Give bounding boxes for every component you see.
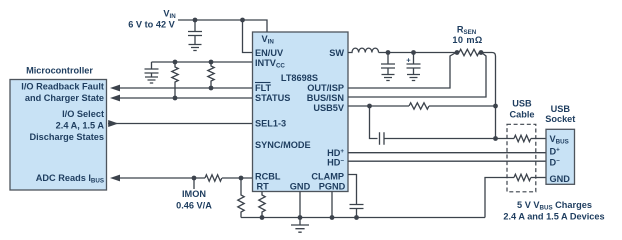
microcontroller block [10, 80, 107, 191]
junction RCBL resistor [239, 176, 244, 181]
svg-text:and Charger State: and Charger State [25, 93, 104, 103]
capacitor COUT1 [387, 53, 389, 65]
svg-text:EN/UV: EN/UV [255, 48, 284, 58]
resistor FLT pull-up [208, 62, 214, 88]
resistor cable VBUS [514, 135, 531, 141]
resistor USB5V series [409, 103, 429, 109]
capacitor HD series (horizontal) [380, 132, 385, 144]
wire SEL1-3 [108, 123, 252, 125]
svg-text:RCBL: RCBL [255, 172, 281, 182]
svg-text:Cable: Cable [509, 110, 534, 120]
wire EN/UV [243, 20, 253, 53]
ground [189, 45, 202, 51]
IMON tap stub [193, 178, 195, 189]
junction IMON node [192, 176, 197, 181]
svg-text:SW: SW [329, 48, 344, 58]
svg-text:2.4 A, 1.5 A: 2.4 A, 1.5 A [56, 121, 105, 131]
junction USB5V cap tap [367, 104, 372, 109]
svg-text:GND: GND [290, 181, 311, 191]
wire VBUS feed from RSEN [481, 53, 496, 139]
junction COUT1 [386, 50, 391, 55]
svg-text:LT8698S: LT8698S [281, 73, 318, 83]
svg-text:Discharge States: Discharge States [29, 132, 104, 142]
wire SW rail [379, 52, 459, 54]
wire CLAMP [348, 175, 357, 205]
svg-text:VIN: VIN [163, 9, 176, 21]
svg-text:10 mΩ: 10 mΩ [452, 35, 482, 45]
svg-text:USB: USB [512, 99, 532, 109]
wire INTVCC rail [152, 61, 253, 63]
wire BUS/ISN kelvin sense [348, 53, 486, 98]
junction GND rail [298, 215, 303, 220]
svg-text:RT: RT [257, 181, 270, 191]
wire ADC/IMON line [116, 177, 252, 179]
svg-text:GND: GND [550, 174, 571, 184]
wire cable GND to socket [531, 177, 546, 179]
svg-text:USB: USB [551, 104, 571, 114]
svg-text:6 V to 42 V: 6 V to 42 V [128, 20, 175, 30]
wire GND pin drop [299, 192, 301, 218]
svg-text:Socket: Socket [545, 114, 575, 124]
junction RSEN left [455, 50, 460, 55]
svg-text:STATUS: STATUS [255, 93, 290, 103]
svg-text:2.4 A and 1.5 A Devices: 2.4 A and 1.5 A Devices [503, 212, 604, 222]
junction clamp rail [354, 215, 359, 220]
wire ground rail [241, 217, 485, 219]
svg-text:USB5V: USB5V [313, 103, 345, 113]
wire rail to USB GND [485, 178, 514, 218]
arrowhead STATUS [110, 95, 120, 102]
capacitor CIN [194, 20, 196, 32]
junction FLT pullup [209, 86, 214, 91]
svg-text:BUS/ISN: BUS/ISN [307, 93, 345, 103]
wire STATUS to microcontroller [116, 97, 252, 99]
resistor RT [259, 192, 265, 218]
inductor L1 [348, 48, 379, 52]
resistor cable GND [514, 174, 531, 180]
svg-text:SEL1-3: SEL1-3 [255, 119, 286, 129]
junction USB5V feed [493, 104, 498, 109]
svg-text:I/O Readback Fault: I/O Readback Fault [21, 82, 104, 92]
arrowhead SEL1-3 [108, 120, 118, 127]
ground [407, 75, 420, 81]
junction INTVCC R1 [173, 60, 178, 65]
junction STATUS pullup [173, 96, 178, 101]
svg-text:SYNC/MODE: SYNC/MODE [255, 140, 311, 150]
svg-text:CLAMP: CLAMP [311, 171, 344, 181]
svg-text:5 V VBUS Charges: 5 V VBUS Charges [517, 200, 592, 212]
resistor STATUS pull-up [172, 62, 178, 98]
junction RSEN right [479, 50, 484, 55]
capacitor COUT2 polarized [413, 53, 415, 65]
resistor RSEN [459, 49, 479, 55]
svg-text:FLT: FLT [255, 83, 272, 93]
wire cap to VBUS node [384, 138, 514, 140]
wire HD- to D- [348, 160, 546, 162]
wire HD+ to D+ [348, 152, 546, 154]
ground main [291, 218, 309, 233]
svg-text:+: + [406, 56, 411, 65]
arrowhead ADC [110, 175, 120, 182]
wire USB5V [348, 105, 496, 107]
svg-text:IMON: IMON [182, 189, 206, 199]
svg-text:0.46 V/A: 0.46 V/A [176, 201, 212, 211]
svg-text:I/O Select: I/O Select [62, 109, 104, 119]
junction INTVCC R2 [209, 60, 214, 65]
USB socket block [546, 129, 575, 184]
junction COUT2 [411, 50, 416, 55]
resistor RCBL [238, 178, 244, 218]
wire VIN rail [178, 20, 267, 32]
svg-text:PGND: PGND [319, 181, 346, 191]
junction PGND rail [330, 215, 335, 220]
resistor IMON series [205, 175, 222, 181]
ground [382, 75, 395, 81]
wire PGND drop [331, 192, 333, 218]
svg-text:OUT/ISP: OUT/ISP [307, 83, 344, 93]
junction ENUV tap [240, 18, 245, 23]
junction RT rail [260, 215, 265, 220]
wire OUT/ISP kelvin sense [348, 53, 456, 89]
junction VBUS node [493, 136, 498, 141]
IC U1 LT8698S (buck regulator) [253, 32, 349, 192]
ground [145, 77, 158, 83]
junction VIN cap [193, 18, 198, 23]
wire cable VBUS to socket [531, 138, 546, 140]
arrowhead FLT [110, 85, 120, 92]
capacitor clamp [350, 205, 364, 209]
wire USB5V to cap [370, 106, 378, 139]
capacitor INTVCC bypass [151, 62, 153, 69]
wire FLT to microcontroller [116, 87, 252, 89]
svg-text:Microcontroller: Microcontroller [26, 66, 93, 76]
USB cable dashed box [507, 124, 536, 192]
